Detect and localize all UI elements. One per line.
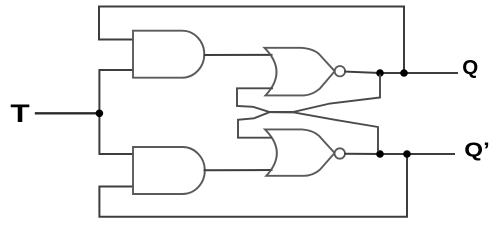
wire: NOR2 output to Q' <box>345 153 454 155</box>
wire: AND2 output to NOR2 input2 <box>205 169 272 171</box>
wire: cross feedback from Q down to NOR2 input1 <box>238 76 380 138</box>
svg-text:T: T <box>10 100 29 128</box>
node: T junction dot <box>96 110 104 118</box>
and-gate U2 (bottom AND) <box>133 147 205 194</box>
wire: top feedback rail from Q node to AND1 input <box>99 7 404 74</box>
and-gate U1 (top AND) <box>133 31 204 78</box>
node: Q junction dot 1 <box>376 69 384 77</box>
node: Q' junction dot 2 <box>403 150 411 158</box>
wire: cross feedback from Q' up to NOR1 input2 <box>237 88 378 150</box>
wire: T input <box>36 112 99 114</box>
wire: bottom feedback rail from Q' node to AND2 input2 <box>99 154 407 217</box>
node: Q junction dot 2 <box>400 69 408 77</box>
wire: AND1 output to NOR1 input1 <box>205 54 272 56</box>
nor-gate U4 bubble <box>335 148 345 158</box>
svg-text:Q’: Q’ <box>464 139 490 161</box>
node: Q' junction dot 1 <box>376 150 384 158</box>
svg-text:Q: Q <box>462 57 478 79</box>
nor-gate U4 (bottom NOR) body <box>265 129 335 175</box>
nor-gate U3 bubble <box>335 66 345 76</box>
wire: NOR1 output to Q <box>345 72 457 73</box>
wire: T vertical branch to AND1 input2 and AND2 input1 <box>99 70 133 154</box>
nor-gate U3 (top NOR) body <box>265 48 335 96</box>
